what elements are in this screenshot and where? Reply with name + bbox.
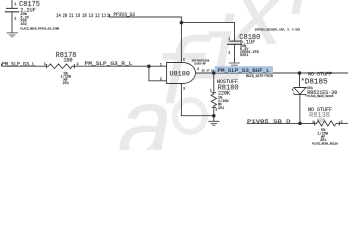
svg-text:3: 3: [183, 87, 185, 91]
svg-text:201: 201: [63, 82, 69, 86]
svg-text:2: 2: [228, 51, 230, 55]
svg-text:18: 18: [82, 13, 87, 19]
svg-text:21: 21: [69, 13, 74, 19]
svg-text:D8185: D8185: [305, 79, 328, 87]
svg-text:NO STUFF: NO STUFF: [308, 72, 332, 78]
svg-text:4: 4: [197, 68, 199, 72]
svg-text:PLACE_NEAR_PP3V3_G3_CONN: PLACE_NEAR_PP3V3_G3_CONN: [20, 28, 59, 31]
svg-text:PM_SLP_G3_R_L: PM_SLP_G3_R_L: [85, 61, 133, 67]
svg-text:DCK6-NP: DCK6-NP: [195, 62, 207, 65]
svg-text:1: 1: [312, 121, 314, 125]
svg-text:MAIN_GATE+THIN: MAIN_GATE+THIN: [246, 74, 273, 78]
svg-text:2: 2: [215, 109, 217, 113]
svg-text:20: 20: [63, 13, 68, 19]
svg-text:1: 1: [160, 64, 162, 68]
svg-text:PLACE_NEAR_R8138: PLACE_NEAR_R8138: [312, 143, 338, 146]
svg-text:5: 5: [183, 59, 185, 63]
svg-text:2: 2: [341, 121, 343, 125]
svg-text:100: 100: [64, 57, 73, 63]
svg-text:2: 2: [160, 78, 162, 82]
svg-text:P1V05_SB_D: P1V05_SB_D: [247, 119, 291, 125]
svg-text:12: 12: [95, 13, 100, 19]
svg-text:PLACE_NEAR_D8185: PLACE_NEAR_D8185: [308, 95, 334, 98]
svg-text:BYPASS,DECOUPL.CAP, S. C-XXX: BYPASS,DECOUPL.CAP, S. C-XXX: [255, 29, 301, 32]
svg-text:K: K: [292, 89, 295, 93]
svg-text:0201: 0201: [240, 54, 248, 58]
svg-text:1: 1: [228, 38, 230, 42]
svg-text:201: 201: [218, 107, 224, 111]
svg-text:16: 16: [76, 13, 81, 19]
svg-text:1: 1: [210, 89, 212, 93]
svg-text:r: r: [283, 0, 337, 42]
svg-text:U8180: U8180: [170, 71, 190, 79]
svg-text:13: 13: [89, 13, 94, 19]
svg-text:1: 1: [44, 63, 46, 67]
svg-text:11: 11: [102, 13, 107, 19]
svg-text:2: 2: [14, 17, 16, 21]
svg-text:14: 14: [56, 13, 61, 19]
svg-text:402: 402: [20, 23, 26, 27]
svg-text:1: 1: [14, 3, 16, 7]
